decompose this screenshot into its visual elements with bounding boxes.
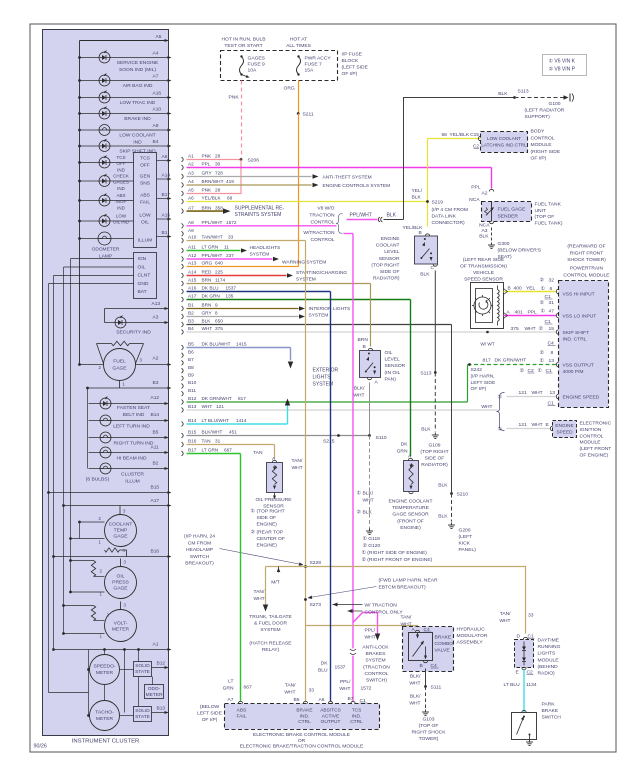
svg-text:TACHO-: TACHO- (95, 710, 114, 716)
svg-text:BRAKES: BRAKES (366, 651, 387, 657)
wire A12 PPL/WHT 237 (182, 257, 184, 262)
svg-text:15A: 15A (305, 68, 314, 74)
svg-text:SPEED SENSOR: SPEED SENSOR (464, 276, 503, 282)
svg-text:S210: S210 (457, 492, 469, 498)
svg-text:ORG: ORG (284, 86, 295, 92)
svg-text:PNK: PNK (202, 188, 213, 193)
svg-text:RUNNING: RUNNING (538, 644, 561, 650)
svg-text:ANTI-THEFT SYSTEM: ANTI-THEFT SYSTEM (323, 175, 372, 181)
speedometer (90, 655, 120, 685)
svg-text:①: ① (498, 427, 503, 433)
svg-text:(HATCH RELEASE: (HATCH RELEASE (249, 641, 292, 647)
wire B12 DK GRN/WHT 817 (182, 400, 184, 405)
svg-text:DAYTIME: DAYTIME (538, 638, 560, 644)
wire A8 PPL/WHT 1572 (182, 223, 184, 228)
svg-text:121: 121 (216, 404, 224, 409)
svg-text:358: 358 (215, 205, 223, 210)
svg-text:(I/P HARN,: (I/P HARN, (471, 373, 495, 379)
svg-text:HEADLAMP: HEADLAMP (186, 547, 214, 553)
svg-text:WHT: WHT (365, 635, 376, 641)
svg-text:ENGINE CONTROLS SYSTEM: ENGINE CONTROLS SYSTEM (323, 183, 391, 189)
svg-text:①: ① (540, 358, 545, 364)
svg-text:A1: A1 (188, 154, 194, 159)
svg-text:ELECTRONIC: ELECTRONIC (580, 421, 612, 427)
wire BLK dashed to G100 (515, 97, 565, 99)
svg-text:GAGE SENSOR: GAGE SENSOR (392, 512, 429, 518)
svg-text:YEL/: YEL/ (412, 188, 423, 194)
svg-text:B1: B1 (162, 230, 168, 236)
svg-text:CM FROM: CM FROM (188, 540, 211, 546)
svg-text:PANEL): PANEL) (459, 547, 477, 553)
svg-text:OF I/P): OF I/P) (342, 71, 358, 77)
svg-text:4000 P/M: 4000 P/M (563, 369, 584, 375)
svg-text:650: 650 (215, 319, 223, 324)
wire BLK dashed to G109 (434, 373, 436, 432)
svg-text:A4: A4 (153, 51, 159, 57)
svg-text:BRAKE IND: BRAKE IND (124, 116, 151, 122)
svg-text:1415: 1415 (236, 342, 247, 347)
wire A5 PNK 28 (182, 191, 184, 196)
svg-text:METER: METER (96, 670, 114, 676)
wire B14 LT BLU/WHT 1414 (182, 422, 184, 427)
cluster bus wire (79, 41, 81, 239)
svg-text:S113: S113 (420, 371, 431, 377)
svg-text:A4: A4 (188, 179, 194, 184)
svg-text:A14: A14 (162, 173, 171, 179)
svg-text:MODULE: MODULE (531, 142, 553, 148)
left turn ind (89, 420, 169, 422)
svg-text:SUPPLEMENTAL RE-: SUPPLEMENTAL RE- (235, 206, 285, 212)
svg-text:G100: G100 (549, 101, 561, 107)
indicator LOW TRAC IND (80, 97, 169, 99)
svg-text:NCA: NCA (479, 223, 490, 229)
svg-text:S206: S206 (248, 158, 260, 164)
oil pressure sensor (272, 460, 276, 462)
svg-text:IND: IND (117, 167, 125, 172)
svg-text:B14: B14 (188, 418, 197, 423)
svg-text:MODULE: MODULE (580, 440, 602, 446)
svg-text:G200: G200 (459, 528, 471, 534)
svg-text:②: ② (251, 530, 256, 536)
coolant temp gage (119, 506, 121, 515)
svg-text:YEL: YEL (526, 286, 536, 292)
connector B10 (182, 384, 184, 389)
solid state module speedo (134, 662, 152, 677)
svg-text:S242: S242 (471, 367, 483, 373)
svg-text:MODULATOR: MODULATOR (457, 633, 488, 639)
svg-text:B8: B8 (188, 365, 194, 370)
svg-text:SYSTEM: SYSTEM (250, 252, 270, 258)
svg-text:TOWER): TOWER) (419, 736, 439, 742)
svg-text:B10: B10 (188, 380, 197, 385)
svg-text:HOT AT: HOT AT (290, 37, 307, 43)
svg-text:ODOMETER: ODOMETER (92, 247, 120, 253)
svg-text:ACTIVE: ACTIVE (322, 713, 339, 719)
svg-text:LT GRN: LT GRN (202, 448, 219, 453)
fuel gage (97, 343, 112, 345)
splice S111 (424, 685, 427, 688)
fasten seat belt ind (89, 403, 169, 405)
svg-text:OR: OR (298, 738, 306, 744)
svg-text:A7: A7 (228, 697, 234, 703)
svg-text:RED: RED (202, 270, 213, 275)
wire B16 TAN 31 (182, 442, 184, 447)
svg-text:W/ TRACTION: W/ TRACTION (365, 603, 398, 609)
svg-text:1572: 1572 (226, 220, 237, 225)
volt meter (120, 602, 122, 610)
svg-text:1134: 1134 (526, 682, 537, 688)
svg-text:ANTI-LOCK: ANTI-LOCK (362, 645, 389, 651)
solid state module tacho (134, 707, 152, 722)
svg-text:ENGINE): ENGINE) (400, 525, 421, 531)
splice S228 (304, 565, 307, 568)
svg-text:(IN OIL: (IN OIL (385, 370, 401, 376)
svg-text:RIGHT SHOCK: RIGHT SHOCK (412, 730, 447, 736)
svg-text:G300: G300 (498, 241, 510, 247)
svg-text:WHT: WHT (363, 497, 374, 503)
svg-text:30: 30 (215, 162, 221, 167)
indicator BRAKE IND (80, 113, 169, 115)
svg-text:B12: B12 (157, 661, 166, 667)
break connector (378, 217, 382, 222)
wire BLK dashed to G300 (491, 228, 493, 243)
splice S211 (297, 112, 300, 115)
svg-text:SOLID: SOLID (135, 708, 150, 714)
cluster wire A13 row (105, 308, 169, 310)
fuse PWR ACCY FUSE 7 15A (297, 57, 301, 75)
svg-text:FUSE 9: FUSE 9 (248, 62, 265, 68)
svg-text:SHOCK TOWER): SHOCK TOWER) (567, 257, 606, 263)
svg-text:PWR ACCY: PWR ACCY (305, 56, 332, 62)
svg-text:BLK: BLK (202, 319, 212, 324)
svg-text:ELECTRONIC BRAKE CONTROL MODUL: ELECTRONIC BRAKE CONTROL MODULE (253, 732, 351, 738)
svg-text:LOW: LOW (139, 213, 151, 219)
svg-text:COOLANT: COOLANT (376, 243, 400, 249)
svg-text:VEHICLE: VEHICLE (473, 270, 495, 276)
svg-text:METER: METER (96, 716, 114, 722)
svg-text:G109: G109 (428, 443, 440, 449)
wire BLK to top ground line (384, 219, 404, 221)
svg-text:OIL IND: OIL IND (113, 220, 130, 225)
svg-text:TAN/: TAN/ (254, 589, 265, 595)
svg-text:PPL/WHT: PPL/WHT (202, 253, 223, 258)
svg-text:237: 237 (226, 253, 234, 258)
svg-text:A6: A6 (162, 154, 168, 160)
fuel gage sender module (491, 168, 493, 189)
svg-text:225: 225 (215, 270, 223, 275)
svg-text:BLK: BLK (438, 483, 448, 489)
svg-text:PPL: PPL (528, 310, 538, 316)
svg-text:47: 47 (549, 309, 555, 315)
svg-text:A9: A9 (188, 228, 194, 233)
svg-text:A7: A7 (153, 74, 159, 80)
svg-text:ORG: ORG (202, 261, 213, 266)
svg-text:GRN: GRN (223, 685, 234, 691)
svg-text:A6: A6 (188, 196, 194, 201)
wire PPL/WHT branch to anti-lock brakes (353, 613, 378, 634)
wire BLK from level sensor (434, 271, 436, 373)
svg-text:LT BLU/WHT: LT BLU/WHT (202, 418, 230, 423)
wire A16 DK BLU 1537 (182, 289, 184, 294)
svg-text:(I/P HARN, 24: (I/P HARN, 24 (184, 534, 215, 540)
splice S273 (304, 598, 307, 601)
svg-text:INSTRUMENT CLUSTER: INSTRUMENT CLUSTER (72, 739, 139, 745)
junction W/WT (486, 331, 489, 334)
wire A2 PPL 30 (182, 165, 184, 170)
svg-text:②: ② (539, 326, 544, 332)
cluster inner verticals (88, 650, 90, 716)
svg-text:SKIP SHIFT: SKIP SHIFT (563, 330, 590, 336)
svg-text:(6 BULBS): (6 BULBS) (86, 477, 110, 483)
indicator AIR BAG IND (80, 80, 169, 82)
svg-text:WHT: WHT (409, 700, 420, 706)
svg-text:HYDRAULIC: HYDRAULIC (457, 627, 486, 633)
svg-text:LOW: LOW (116, 214, 127, 219)
svg-text:STATE: STATE (135, 669, 150, 675)
svg-text:GAGES: GAGES (113, 180, 129, 185)
svg-text:451: 451 (229, 430, 237, 435)
svg-text:VSS HI INPUT: VSS HI INPUT (563, 292, 595, 298)
wire LT GRN vertical to EBCM (240, 454, 242, 702)
svg-text:SOON IND (MIL): SOON IND (MIL) (119, 67, 156, 73)
svg-text:TEMP: TEMP (114, 528, 128, 534)
svg-text:S228: S228 (310, 560, 322, 566)
svg-text:A11: A11 (188, 245, 196, 250)
svg-text:BREAKOUT): BREAKOUT) (185, 561, 214, 567)
svg-text:PPL/: PPL/ (340, 679, 351, 685)
svg-text:FASTEN SEAT: FASTEN SEAT (117, 405, 150, 411)
svg-text:OF I/P): OF I/P) (531, 156, 547, 162)
svg-text:VALVE: VALVE (435, 648, 451, 654)
svg-text:OIL: OIL (138, 265, 146, 271)
electronic brake control module (225, 704, 380, 730)
svg-text:②: ② (357, 510, 362, 516)
svg-text:BLK/WHT: BLK/WHT (202, 430, 223, 435)
svg-text:② G120: ② G120 (363, 543, 381, 549)
wire LT BLU 1134 (523, 670, 525, 713)
wire A4 BRN/WHT 419 (182, 183, 184, 188)
splice S242 (468, 363, 471, 366)
svg-text:B17: B17 (162, 192, 171, 198)
tachometer (90, 701, 120, 731)
svg-text:BLK: BLK (421, 427, 431, 433)
wire A3 GRY 728 (182, 174, 184, 179)
svg-text:(LEFT SIDE: (LEFT SIDE (342, 65, 369, 71)
wire DK GRN vertical (410, 300, 412, 457)
svg-text:ENGINE SPEED: ENGINE SPEED (563, 395, 600, 401)
svg-text:SENDER: SENDER (498, 213, 519, 219)
svg-text:TAN/: TAN/ (292, 458, 303, 464)
svg-text:LEFT TURN IND: LEFT TURN IND (113, 424, 150, 430)
svg-text:A8: A8 (188, 220, 194, 225)
svg-text:SECURITY IND: SECURITY IND (116, 330, 151, 336)
svg-text:A12: A12 (188, 253, 197, 258)
svg-text:(LEFT RADIATOR: (LEFT RADIATOR (525, 108, 565, 114)
svg-text:28: 28 (215, 188, 221, 193)
svg-text:A11: A11 (151, 445, 160, 451)
svg-text:SYSTEM: SYSTEM (260, 627, 280, 633)
svg-text:B12: B12 (188, 396, 197, 401)
svg-text:METER: METER (112, 627, 130, 633)
svg-text:BLK/: BLK/ (410, 694, 421, 700)
svg-text:667: 667 (224, 448, 232, 453)
svg-text:BLK/: BLK/ (354, 386, 365, 392)
svg-text:32: 32 (549, 278, 555, 284)
wire A10 TAN/WHT 33 (182, 238, 184, 243)
svg-text:ABS/TCS: ABS/TCS (320, 708, 341, 714)
svg-text:(TRACTION: (TRACTION (363, 665, 390, 671)
svg-text:S273: S273 (310, 602, 322, 608)
svg-text:WHT: WHT (481, 404, 492, 410)
svg-text:RELAY): RELAY) (262, 647, 280, 653)
svg-text:BLK: BLK (479, 234, 489, 240)
hi beam ind (89, 452, 169, 454)
svg-text:BRN/WHT: BRN/WHT (202, 179, 224, 184)
svg-text:B16: B16 (188, 439, 197, 444)
svg-text:LEFT SIDE: LEFT SIDE (471, 380, 496, 386)
svg-text:SPEEDO-: SPEEDO- (93, 664, 115, 670)
svg-text:B4: B4 (188, 326, 194, 331)
svg-text:VSS OUTPUT: VSS OUTPUT (563, 363, 594, 369)
svg-text:B3: B3 (153, 380, 159, 386)
svg-text:WHT: WHT (532, 390, 543, 396)
svg-text:VSS LO INPUT: VSS LO INPUT (563, 314, 597, 320)
svg-text:A16: A16 (153, 91, 162, 97)
svg-text:TAN/WHT: TAN/WHT (202, 235, 223, 240)
wire B4 WHT 375 (182, 330, 184, 335)
svg-text:SNS: SNS (140, 181, 151, 187)
svg-text:TEST OR START: TEST OR START (224, 43, 262, 49)
svg-text:①: ① (357, 491, 362, 497)
svg-text:A15: A15 (188, 278, 197, 283)
svg-text:RADIATOR): RADIATOR) (421, 462, 448, 468)
svg-text:PARK: PARK (542, 702, 556, 708)
svg-text:B5: B5 (188, 342, 194, 347)
wire B13 WHT 121 (182, 408, 184, 413)
indicator ABS INOP IND (80, 200, 134, 202)
svg-text:IGN: IGN (138, 256, 147, 262)
wire PNK S206 to A5 (187, 160, 242, 194)
svg-text:OFF: OFF (140, 163, 150, 169)
wire B5 DK BLU/WHT 1415 (182, 345, 184, 350)
svg-text:DK BLU/WHT: DK BLU/WHT (202, 342, 231, 347)
svg-text:CLNT: CLNT (138, 273, 151, 279)
svg-text:(BEHIND: (BEHIND (538, 664, 559, 670)
wire YEL 400 VSS HI (504, 291, 557, 293)
svg-text:135: 135 (226, 294, 234, 299)
svg-text:31: 31 (215, 439, 221, 444)
svg-text:TRUNK, TAILGATE: TRUNK, TAILGATE (249, 614, 292, 620)
splice S206 (240, 158, 243, 161)
wire BLK/WHT from oil level sensor (369, 383, 371, 436)
svg-text:BRN: BRN (202, 278, 213, 283)
svg-text:(LEFT REAR SIDE: (LEFT REAR SIDE (463, 257, 505, 263)
wire TAN/WHT vertical (305, 241, 307, 702)
svg-text:HEADLIGHTS: HEADLIGHTS (250, 245, 281, 251)
pointer fwd lamp harn to S273 (310, 587, 377, 598)
svg-text:CONTROL: CONTROL (311, 237, 335, 243)
svg-text:FUEL: FUEL (113, 359, 126, 365)
svg-text:PPL/WHT: PPL/WHT (350, 213, 372, 219)
svg-text:667: 667 (244, 685, 252, 691)
svg-text:A15: A15 (162, 213, 171, 219)
wire PNK from fuse 9 (241, 81, 243, 160)
cluster sub box TCS OFF / GEN SNS / ABS FAIL / LOW OIL / ILLUM (134, 153, 157, 248)
cluster wire B16 row (54, 556, 169, 558)
svg-text:B3: B3 (188, 319, 194, 324)
svg-text:② (RIGHT FRONT OF ENGINE): ② (RIGHT FRONT OF ENGINE) (362, 557, 433, 563)
svg-text:CLUSTER: CLUSTER (121, 472, 144, 478)
svg-text:UNIT: UNIT (535, 208, 546, 214)
svg-text:A3: A3 (153, 315, 159, 321)
svg-text:FUSE 7: FUSE 7 (305, 62, 322, 68)
svg-text:A14: A14 (188, 270, 197, 275)
wire BLK/WHT dashed to G103 (425, 687, 427, 710)
svg-text:121: 121 (519, 422, 527, 428)
svg-text:A1: A1 (153, 642, 159, 648)
svg-text:728: 728 (215, 171, 223, 176)
svg-text:BODY: BODY (531, 129, 546, 135)
wire B15 BLK/WHT 451 (182, 433, 184, 438)
svg-text:BRAKE: BRAKE (296, 708, 312, 714)
wire PPL 401 VSS LO (504, 315, 557, 317)
svg-text:CONTROL ONLY: CONTROL ONLY (365, 610, 404, 616)
svg-text:GND: GND (138, 281, 149, 287)
svg-text:ILLUM: ILLUM (138, 238, 152, 244)
svg-text:B9: B9 (188, 373, 194, 378)
splice S113 top (513, 96, 516, 99)
svg-text:SYSTEM: SYSTEM (309, 313, 329, 319)
svg-text:CTRL: CTRL (350, 719, 363, 725)
wire A7 BRN 358 (182, 209, 184, 214)
svg-text:LT GRN: LT GRN (202, 245, 219, 250)
svg-text:EXTERIOR: EXTERIOR (313, 368, 339, 374)
svg-text:IND: IND (117, 205, 125, 210)
svg-text:YEL/BLK: YEL/BLK (202, 196, 222, 201)
wire A13 ORG 640 (182, 264, 184, 269)
connector B9 (182, 376, 184, 381)
svg-text:WHT: WHT (339, 686, 350, 692)
wire BLK/WHT from brake combo valve (425, 669, 427, 687)
svg-text:S113: S113 (518, 89, 529, 95)
svg-text:15: 15 (549, 326, 555, 332)
svg-text:BLK: BLK (420, 272, 430, 278)
indicator LOW OIL IND (80, 220, 134, 222)
svg-text:BRN: BRN (358, 337, 369, 343)
svg-text:BLK: BLK (363, 510, 373, 516)
svg-text:②: ② (498, 395, 503, 401)
svg-text:STATE: STATE (135, 714, 150, 720)
svg-text:TCS: TCS (140, 156, 151, 162)
svg-text:IGNITION: IGNITION (580, 427, 602, 433)
svg-text:A3: A3 (188, 171, 194, 176)
svg-text:(TOP OF: (TOP OF (419, 723, 439, 729)
pointer I/P harn to S228 (220, 549, 302, 565)
connector B11 (182, 391, 184, 396)
svg-text:ALL TIMES: ALL TIMES (286, 43, 312, 49)
svg-text:OF TRANSMISSION): OF TRANSMISSION) (460, 263, 507, 269)
connector A9 (182, 231, 184, 236)
wire TAN/WHT to brake combo valve (306, 626, 418, 631)
svg-text:8: 8 (551, 350, 554, 356)
svg-text:BRN: BRN (202, 205, 213, 210)
wire A14 RED 225 (182, 273, 184, 278)
svg-text:1174: 1174 (215, 278, 225, 283)
svg-text:WHT: WHT (353, 392, 364, 398)
svg-text:A12: A12 (151, 395, 160, 401)
svg-text:A17: A17 (151, 498, 160, 504)
svg-text:OF ENGINE): OF ENGINE) (580, 453, 609, 459)
